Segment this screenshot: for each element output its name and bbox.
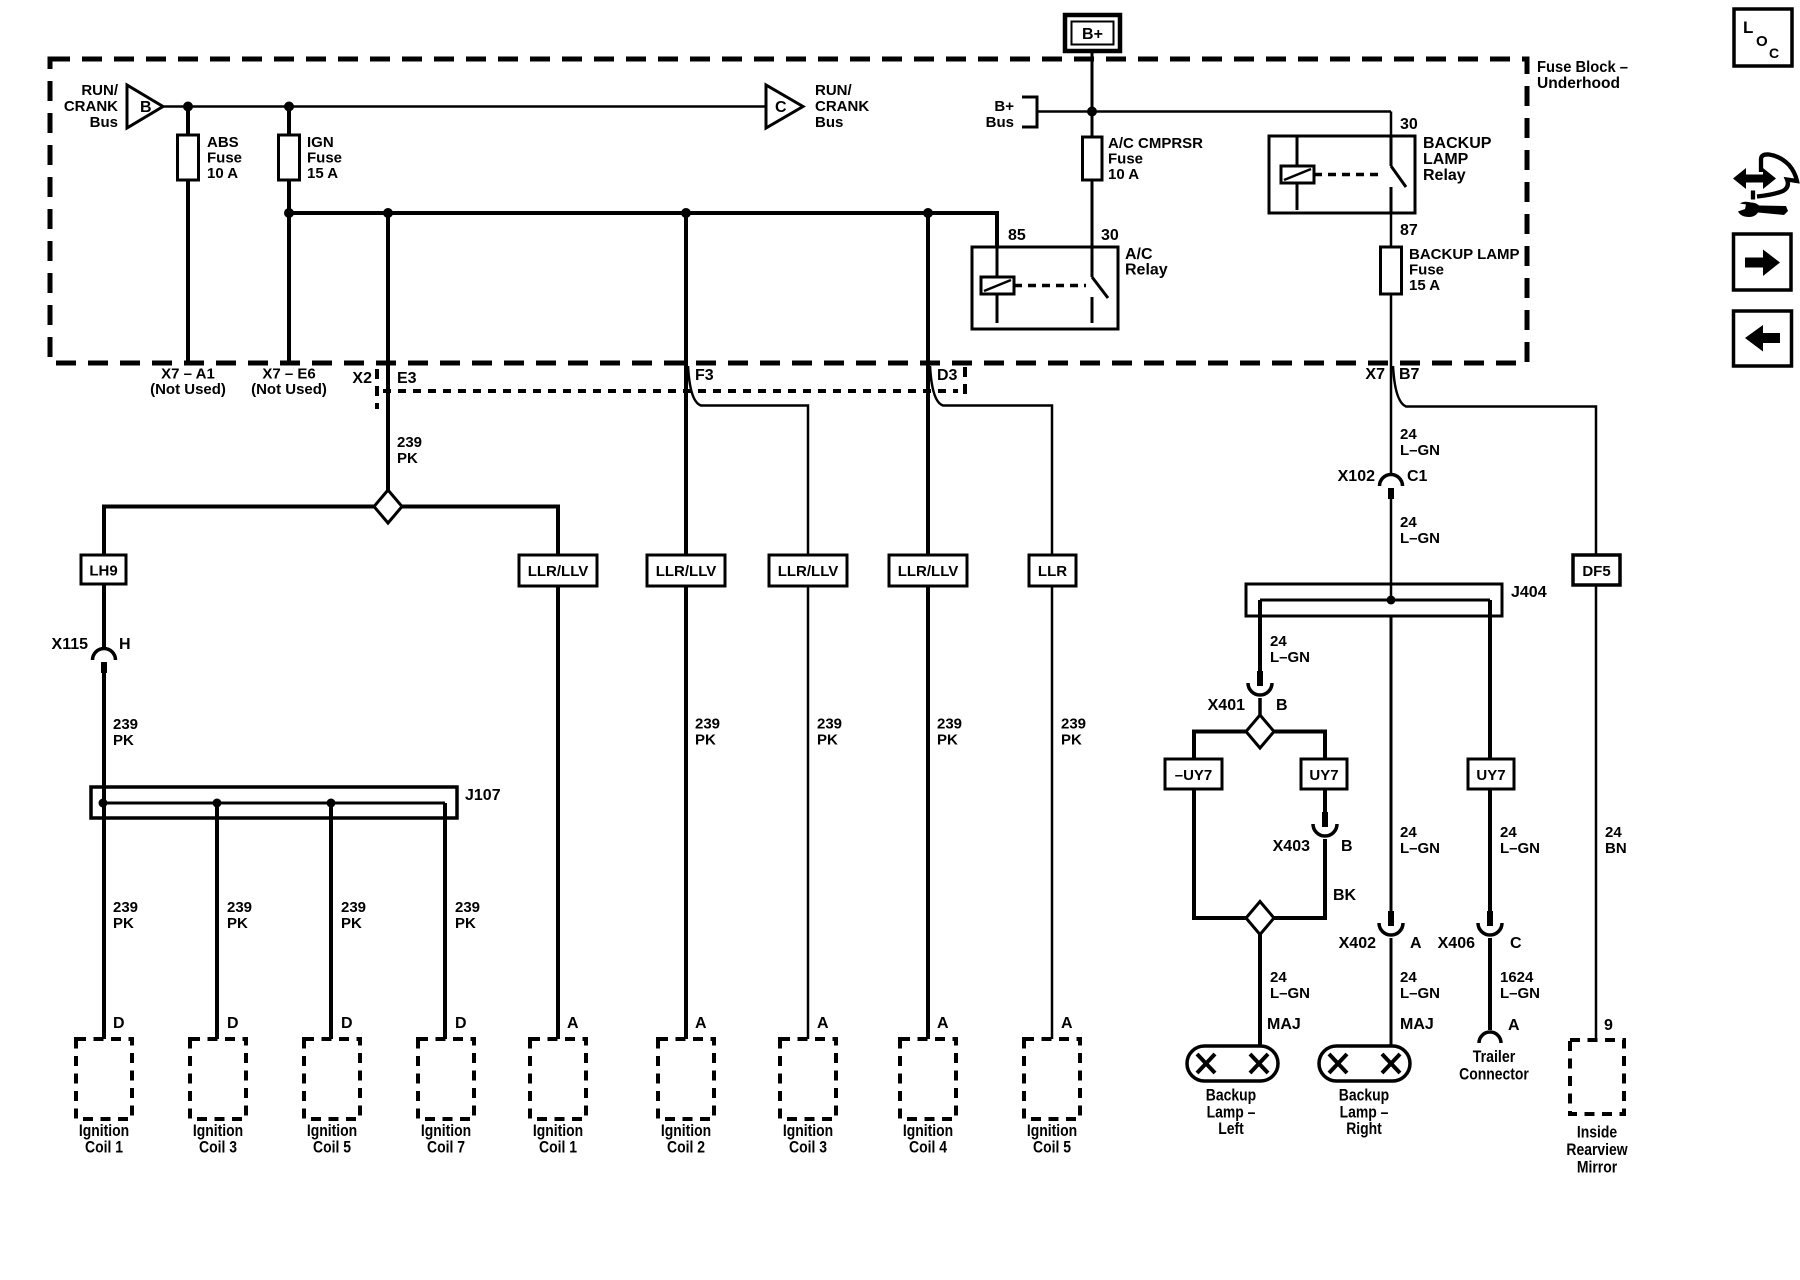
svg-text:Connector: Connector <box>1459 1065 1529 1084</box>
wire B7 24 L-GN down <box>1390 363 1393 476</box>
svg-text:LLR: LLR <box>1038 563 1067 580</box>
svg-text:L–GN: L–GN <box>1400 530 1440 547</box>
svg-text:MAJ: MAJ <box>1400 1016 1434 1033</box>
svg-text:A: A <box>695 1015 707 1032</box>
component Ignition Coil 5 dashed box <box>304 1039 360 1119</box>
wire A/C CMPRSR fuse to A/C relay pin 30 <box>1091 180 1094 247</box>
svg-text:L–GN: L–GN <box>1270 985 1310 1002</box>
wire B7 branch curve to DF5 column <box>1393 366 1596 555</box>
svg-text:Bus: Bus <box>815 114 843 131</box>
connector X401 pin B inline <box>1257 671 1263 686</box>
svg-text:24: 24 <box>1400 824 1417 841</box>
svg-text:PK: PK <box>1061 732 1082 749</box>
svg-text:C: C <box>1769 45 1779 61</box>
wire LH9 to X115 <box>102 584 106 650</box>
bus tag triangle B RUN/CRANK Bus <box>127 85 163 128</box>
wire UY7 right down to X406 <box>1488 789 1492 911</box>
svg-text:B: B <box>1341 838 1353 855</box>
svg-text:RUN/: RUN/ <box>81 82 118 99</box>
component Ignition Coil 2 dashed box <box>658 1039 714 1119</box>
svg-text:LH9: LH9 <box>89 563 117 580</box>
connector X406 pin C inline <box>1487 911 1493 926</box>
svg-text:Bus: Bus <box>986 114 1014 131</box>
X2 connector dotted line <box>383 389 958 393</box>
backup lamp relay switch <box>1390 136 1393 166</box>
svg-text:Coil 1: Coil 1 <box>85 1138 123 1157</box>
wire B+ bus to backup lamp relay pin 30 <box>1390 112 1393 137</box>
svg-text:PK: PK <box>113 915 134 932</box>
option box LLR <box>1029 555 1076 586</box>
svg-text:A/C: A/C <box>1125 246 1153 263</box>
splice pack J404 <box>1246 584 1502 616</box>
wire LLR/LLV2 to ignition coil 2 <box>684 586 688 1039</box>
svg-text:Relay: Relay <box>1423 167 1466 184</box>
svg-text:Underhood: Underhood <box>1537 75 1620 92</box>
A/C relay coil <box>996 247 999 277</box>
svg-text:IGN: IGN <box>307 134 334 151</box>
wire D3 down to LLR/LLV 4 <box>926 213 930 555</box>
option box UY7 (right) <box>1468 759 1514 789</box>
junction dot IGN fuse output <box>284 208 294 218</box>
connector X115 pin H inline <box>93 649 116 661</box>
option box LLR/LLV 2 <box>647 555 725 586</box>
component Ignition Coil 3 dashed box <box>190 1039 246 1119</box>
battery terminal B+ box <box>1065 15 1120 51</box>
svg-text:UY7: UY7 <box>1309 767 1338 784</box>
wire X406 to trailer connector <box>1488 938 1492 1030</box>
icon hotlink arrows and wrench <box>1733 168 1776 189</box>
svg-text:A: A <box>1508 1017 1520 1034</box>
svg-text:L–GN: L–GN <box>1400 840 1440 857</box>
wire diamond right to LLR/LLV <box>402 507 558 556</box>
lamp Backup Lamp - Right <box>1319 1046 1410 1081</box>
svg-text:PK: PK <box>397 450 418 467</box>
wire RUN/CRANK bus to IGN fuse <box>287 107 291 136</box>
svg-text:LLR/LLV: LLR/LLV <box>778 563 839 580</box>
wire -UY7 down to junction <box>1194 789 1246 918</box>
svg-text:9: 9 <box>1604 1017 1613 1034</box>
svg-text:X2: X2 <box>352 370 372 387</box>
svg-text:239: 239 <box>455 899 480 916</box>
X2 connector boundary tick <box>375 369 379 409</box>
svg-text:D: D <box>113 1015 125 1032</box>
wire LLR/LLV4 to ignition coil 4 <box>926 586 930 1039</box>
wire J404 left branch to X401 <box>1258 600 1262 671</box>
connector X403 pin B inline <box>1322 812 1328 827</box>
svg-text:B: B <box>1276 697 1288 714</box>
svg-text:L–GN: L–GN <box>1270 649 1310 666</box>
wire J404 down to X402 <box>1390 616 1393 911</box>
svg-text:L–GN: L–GN <box>1500 840 1540 857</box>
junction dot J107 coil5 <box>327 799 336 808</box>
wire X401 to diamond <box>1258 698 1262 716</box>
svg-text:B: B <box>140 99 152 116</box>
svg-text:LLR/LLV: LLR/LLV <box>656 563 717 580</box>
svg-text:X401: X401 <box>1208 697 1245 714</box>
svg-text:DF5: DF5 <box>1582 563 1610 580</box>
junction dot J404 <box>1387 596 1396 605</box>
fuse BACKUP LAMP Fuse 15 A <box>1381 247 1402 294</box>
svg-text:Backup: Backup <box>1339 1085 1389 1104</box>
svg-text:A: A <box>1061 1015 1073 1032</box>
svg-text:X406: X406 <box>1438 935 1475 952</box>
wire F3 branch curve to col 3 <box>688 366 808 555</box>
svg-text:15 A: 15 A <box>1409 277 1440 294</box>
svg-text:X403: X403 <box>1273 838 1310 855</box>
svg-text:L: L <box>1743 18 1753 37</box>
svg-text:24: 24 <box>1400 514 1417 531</box>
svg-text:239: 239 <box>227 899 252 916</box>
component Ignition Coil 7 dashed box <box>418 1039 474 1119</box>
wire diamond right to UY7 <box>1274 732 1325 760</box>
svg-text:X7: X7 <box>1365 366 1385 383</box>
svg-text:–UY7: –UY7 <box>1175 767 1213 784</box>
svg-text:LLR/LLV: LLR/LLV <box>898 563 959 580</box>
svg-text:C: C <box>775 99 787 116</box>
svg-text:D3: D3 <box>937 367 958 384</box>
svg-text:X7 – E6: X7 – E6 <box>262 366 315 383</box>
svg-text:O: O <box>1756 33 1768 50</box>
component Ignition Coil 3 dashed box <box>780 1039 836 1119</box>
A/C relay switch <box>1091 247 1094 277</box>
svg-text:24: 24 <box>1270 633 1287 650</box>
svg-text:LLR/LLV: LLR/LLV <box>528 563 589 580</box>
wire diamond to backup lamp left <box>1258 935 1262 1047</box>
svg-text:PK: PK <box>817 732 838 749</box>
bus tag triangle C RUN/CRANK Bus <box>766 85 803 128</box>
svg-text:239: 239 <box>817 716 842 733</box>
svg-text:Mirror: Mirror <box>1577 1158 1618 1177</box>
svg-text:(Not Used): (Not Used) <box>251 381 327 398</box>
fuse ABS Fuse 10 A <box>178 135 199 180</box>
wire LLR/LLV1 to ignition coil 1b <box>556 586 560 1039</box>
svg-text:C1: C1 <box>1407 468 1428 485</box>
svg-text:Coil 5: Coil 5 <box>1033 1138 1071 1157</box>
fuse block underhood dashed boundary box <box>50 59 1527 363</box>
wire LLR to ignition coil 5b <box>1051 586 1054 1039</box>
wire LLR/LLV3 to ignition coil 3b <box>807 586 810 1039</box>
svg-text:X102: X102 <box>1338 468 1375 485</box>
wire X402 to backup lamp right <box>1390 938 1393 1046</box>
svg-text:D: D <box>341 1015 353 1032</box>
svg-text:BACKUP LAMP: BACKUP LAMP <box>1409 246 1520 263</box>
component Ignition Coil 4 dashed box <box>900 1039 956 1119</box>
fuse A/C CMPRSR Fuse 10 A <box>1083 137 1103 180</box>
connector X402 pin A inline <box>1388 911 1394 926</box>
svg-text:239: 239 <box>695 716 720 733</box>
svg-text:B7: B7 <box>1399 366 1420 383</box>
svg-text:F3: F3 <box>695 367 714 384</box>
junction dot E3 tap <box>383 208 393 218</box>
svg-text:ABS: ABS <box>207 134 239 151</box>
relay A/C Relay box <box>972 247 1118 329</box>
svg-text:Fuse: Fuse <box>1108 151 1143 168</box>
wire E3 239 PK down <box>386 213 390 490</box>
svg-text:X402: X402 <box>1339 935 1376 952</box>
svg-text:Coil 3: Coil 3 <box>199 1138 237 1157</box>
svg-text:24: 24 <box>1500 824 1517 841</box>
svg-text:A: A <box>1410 935 1422 952</box>
svg-text:(Not Used): (Not Used) <box>150 381 226 398</box>
wire J107 to ignition coil 1 <box>102 803 106 1039</box>
wire IGN fuse to X7-E6 <box>287 180 291 363</box>
svg-text:D: D <box>455 1015 467 1032</box>
svg-text:LAMP: LAMP <box>1423 151 1469 168</box>
svg-text:30: 30 <box>1400 116 1418 133</box>
wire ABS fuse to X7-A1 <box>186 180 190 363</box>
svg-text:PK: PK <box>937 732 958 749</box>
wire J404 right branch to UY7 <box>1488 600 1492 759</box>
wire DF5 down to mirror <box>1595 585 1598 1040</box>
svg-text:Trailer: Trailer <box>1473 1047 1516 1066</box>
wire diamond left to LH9 <box>104 507 374 556</box>
svg-text:H: H <box>119 636 131 653</box>
junction dot IGN fuse tap <box>284 102 294 112</box>
wire IGN fuse output bus <box>289 213 997 247</box>
svg-text:239: 239 <box>113 899 138 916</box>
svg-text:A: A <box>567 1015 579 1032</box>
svg-text:CRANK: CRANK <box>64 98 118 115</box>
wire B+ box down to B+ bus <box>1091 51 1094 113</box>
svg-text:A: A <box>937 1015 949 1032</box>
junction dot J107 coil1 <box>99 799 108 808</box>
svg-text:B+: B+ <box>1082 26 1103 43</box>
lamp Backup Lamp - Left <box>1187 1046 1278 1081</box>
svg-text:239: 239 <box>397 434 422 451</box>
wire backup lamp fuse to X7-B7 <box>1390 294 1393 363</box>
component Inside Rearview Mirror dashed box <box>1570 1040 1624 1114</box>
svg-text:C: C <box>1510 935 1522 952</box>
svg-text:X7 – A1: X7 – A1 <box>161 366 215 383</box>
svg-text:10 A: 10 A <box>207 165 238 182</box>
svg-text:PK: PK <box>695 732 716 749</box>
X2 connector right boundary tick <box>963 367 967 400</box>
svg-text:Right: Right <box>1346 1119 1382 1138</box>
svg-text:24: 24 <box>1270 969 1287 986</box>
svg-text:Coil 3: Coil 3 <box>789 1138 827 1157</box>
option box -UY7 <box>1165 759 1222 789</box>
svg-text:L–GN: L–GN <box>1400 442 1440 459</box>
wire F3 down to LLR/LLV 2 <box>684 213 688 555</box>
splice diamond backup lamp left <box>1246 902 1274 935</box>
svg-text:J107: J107 <box>465 787 501 804</box>
svg-text:A: A <box>817 1015 829 1032</box>
svg-text:PK: PK <box>455 915 476 932</box>
svg-text:BACKUP: BACKUP <box>1423 135 1492 152</box>
svg-text:Coil 5: Coil 5 <box>313 1138 351 1157</box>
svg-text:Fuse: Fuse <box>1409 262 1444 279</box>
svg-text:Backup: Backup <box>1206 1085 1256 1104</box>
svg-text:B+: B+ <box>994 98 1014 115</box>
backup lamp relay coil-switch dashed link <box>1314 173 1384 177</box>
option box LLR/LLV 4 <box>889 555 967 586</box>
svg-text:L–GN: L–GN <box>1400 985 1440 1002</box>
wire J107 to ignition coil 5 <box>329 803 333 1039</box>
option box UY7 (center) <box>1301 759 1347 789</box>
junction dot ABS fuse tap <box>183 102 193 112</box>
svg-text:Coil 1: Coil 1 <box>539 1138 577 1157</box>
svg-text:MAJ: MAJ <box>1267 1016 1301 1033</box>
wire D3 branch curve to col 5 <box>930 366 1052 555</box>
svg-text:UY7: UY7 <box>1476 767 1505 784</box>
svg-text:Relay: Relay <box>1125 262 1168 279</box>
icon back arrow box <box>1734 311 1792 366</box>
svg-text:239: 239 <box>341 899 366 916</box>
svg-text:PK: PK <box>227 915 248 932</box>
connector X102 pin C1 inline <box>1380 475 1403 486</box>
svg-text:Fuse: Fuse <box>207 150 242 167</box>
bus tag B+ Bus bracket <box>1022 97 1037 127</box>
fuse IGN Fuse 15 A <box>279 135 300 180</box>
splice diamond E3 <box>374 490 402 523</box>
wire relay pin 87 to backup lamp fuse <box>1390 213 1393 247</box>
wire J107 to ignition coil 3 <box>215 803 219 1039</box>
svg-text:Coil 2: Coil 2 <box>667 1138 705 1157</box>
svg-text:Rearview: Rearview <box>1566 1140 1628 1159</box>
svg-text:BN: BN <box>1605 840 1627 857</box>
svg-text:Coil 4: Coil 4 <box>909 1138 947 1157</box>
connector Trailer Connector <box>1479 1032 1501 1043</box>
wire X115 to J107 <box>102 673 106 803</box>
wire B+ bus horizontal <box>1037 110 1391 113</box>
wire X102 to J404 <box>1390 499 1393 600</box>
svg-text:Fuse Block –: Fuse Block – <box>1537 59 1628 76</box>
backup lamp relay coil <box>1296 136 1299 166</box>
svg-text:24: 24 <box>1400 426 1417 443</box>
option box DF5 <box>1573 555 1620 585</box>
svg-text:239: 239 <box>937 716 962 733</box>
svg-text:L–GN: L–GN <box>1500 985 1540 1002</box>
svg-text:D: D <box>227 1015 239 1032</box>
option box LH9 <box>81 555 126 584</box>
svg-text:239: 239 <box>1061 716 1086 733</box>
wire diamond left to -UY7 <box>1194 732 1246 760</box>
component Ignition Coil 1 dashed box <box>76 1039 132 1119</box>
svg-text:24: 24 <box>1400 969 1417 986</box>
icon forward arrow box <box>1734 234 1792 290</box>
svg-text:10 A: 10 A <box>1108 166 1139 183</box>
svg-text:87: 87 <box>1400 222 1418 239</box>
svg-text:PK: PK <box>113 732 134 749</box>
svg-text:RUN/: RUN/ <box>815 82 852 99</box>
wire RUN/CRANK bus horizontal <box>163 105 766 108</box>
svg-text:BK: BK <box>1333 887 1357 904</box>
svg-text:Bus: Bus <box>90 114 118 131</box>
component Ignition Coil 5 dashed box <box>1024 1039 1080 1119</box>
svg-text:CRANK: CRANK <box>815 98 869 115</box>
junction dot J107 coil3 <box>213 799 222 808</box>
wire B+ bus to A/C CMPRSR fuse <box>1091 112 1094 138</box>
svg-text:A/C CMPRSR: A/C CMPRSR <box>1108 135 1203 152</box>
component Ignition Coil 1 dashed box <box>530 1039 586 1119</box>
svg-text:E3: E3 <box>397 370 417 387</box>
svg-text:Fuse: Fuse <box>307 150 342 167</box>
splice diamond X401 <box>1246 715 1274 748</box>
wire J107 to ignition coil 7 <box>443 803 447 1039</box>
svg-text:PK: PK <box>341 915 362 932</box>
junction dot D3 tap <box>923 208 933 218</box>
svg-text:Inside: Inside <box>1577 1123 1617 1142</box>
svg-text:1624: 1624 <box>1500 969 1534 986</box>
wire UY7 to X403 <box>1323 789 1327 812</box>
option box LLR/LLV 1 <box>519 555 597 586</box>
svg-text:Coil 7: Coil 7 <box>427 1138 465 1157</box>
relay BACKUP LAMP Relay box <box>1269 136 1415 213</box>
svg-text:239: 239 <box>113 716 138 733</box>
svg-text:X115: X115 <box>52 636 89 653</box>
wire RUN/CRANK bus to ABS fuse <box>186 107 190 136</box>
A/C relay coil-switch dashed link <box>1014 284 1086 288</box>
junction dot F3 tap <box>681 208 691 218</box>
wire X403 down to junction, BK label <box>1274 839 1325 918</box>
junction dot A/C CMPRSR fuse tap <box>1087 107 1097 117</box>
svg-text:15 A: 15 A <box>307 165 338 182</box>
icon LOC box <box>1734 9 1792 66</box>
svg-text:Left: Left <box>1218 1119 1244 1138</box>
splice pack J107 <box>91 787 457 818</box>
svg-text:J404: J404 <box>1511 584 1547 601</box>
svg-text:24: 24 <box>1605 824 1622 841</box>
option box LLR/LLV 3 <box>769 555 847 586</box>
svg-text:30: 30 <box>1101 227 1119 244</box>
svg-text:85: 85 <box>1008 227 1026 244</box>
